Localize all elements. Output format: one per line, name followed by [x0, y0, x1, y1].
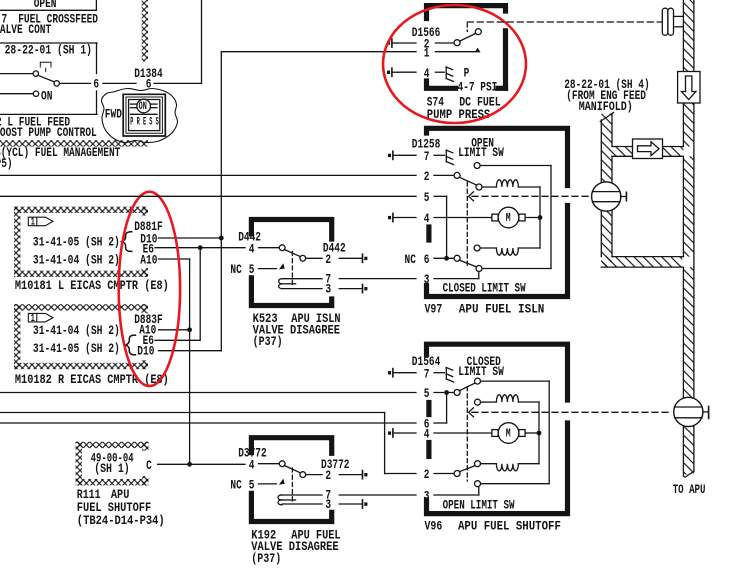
- pin 3 connector stub: [363, 285, 368, 293]
- svg-text:6: 6: [424, 254, 430, 268]
- wire pin 4 to motor: [434, 217, 491, 219]
- dashed link arm to coil: [291, 468, 293, 504]
- valve motor M: [492, 423, 525, 444]
- V97 isolation valve symbol on branch pipe: [592, 182, 621, 211]
- closed limit switch common circle: [454, 255, 460, 261]
- wire pin 6 to connector D1384: [103, 82, 136, 84]
- closed limit switch arm: [459, 260, 477, 267]
- wire left edge to pin 2: [0, 174, 416, 176]
- valve motor M: [492, 207, 525, 228]
- svg-text:OPEN LIMIT SW: OPEN LIMIT SW: [443, 499, 515, 513]
- svg-text:31-41-05 (SH 2): 31-41-05 (SH 2): [33, 235, 120, 250]
- momentary bracket: [40, 62, 51, 67]
- contact arrowhead pin 1: [475, 48, 481, 53]
- svg-text:A10: A10: [140, 254, 157, 268]
- open limit switch NC contact to rail: [474, 163, 480, 169]
- pin 7: [282, 278, 322, 280]
- pipe end cut to APU: [683, 472, 694, 478]
- svg-text:ON: ON: [139, 99, 147, 112]
- svg-text:2: 2: [424, 171, 430, 185]
- svg-text:3: 3: [325, 499, 331, 513]
- wire left edge to V96 pin 5: [0, 392, 416, 394]
- svg-text:M: M: [506, 212, 511, 226]
- svg-text:6: 6: [146, 79, 152, 93]
- wire pin C to K192 pin 4: [158, 463, 245, 465]
- ON indicator circle: [137, 99, 151, 113]
- svg-text:4: 4: [424, 428, 430, 442]
- pin 4 connector stub: [388, 213, 399, 221]
- svg-text:APU FUEL ISLN: APU FUEL ISLN: [459, 302, 545, 317]
- wire A10 down to R111 node: [159, 258, 190, 260]
- pin 2: [398, 42, 416, 44]
- pin 3: [282, 503, 322, 505]
- svg-text:S(YCL) FUEL MANAGEMENT: S(YCL) FUEL MANAGEMENT: [0, 147, 120, 161]
- svg-text:TO APU: TO APU: [673, 484, 706, 498]
- svg-text:5: 5: [249, 264, 255, 278]
- hatched separator band: [0, 140, 148, 146]
- flag note 1: [28, 217, 53, 226]
- svg-text:M: M: [506, 427, 511, 441]
- dashed mechanical link between limit switches: [466, 182, 468, 266]
- svg-text:1: 1: [31, 215, 35, 228]
- flow direction box right arrow: [633, 139, 663, 159]
- NC contact arrow: [279, 479, 285, 485]
- svg-text:2: 2: [325, 254, 331, 268]
- open limit switch arm: [459, 466, 475, 472]
- mechanical link chevron: [469, 408, 474, 417]
- pin 3: [282, 288, 322, 290]
- switch contact circle pin 2: [454, 40, 460, 46]
- svg-text:7: 7: [424, 151, 430, 165]
- svg-text:1: 1: [31, 311, 35, 324]
- bus wire A10 / A10 / R111 vertical: [189, 259, 191, 464]
- lower connector pipe to main line: [601, 257, 682, 268]
- svg-text:3: 3: [325, 283, 331, 297]
- svg-text:P5): P5): [0, 158, 13, 172]
- svg-text:APU FUEL SHUTOFF: APU FUEL SHUTOFF: [458, 518, 561, 533]
- wire pin 3 from K523 pin 7: [339, 278, 416, 280]
- svg-text:VALVE CONT: VALVE CONT: [0, 24, 51, 38]
- relay switch common circle: [279, 461, 285, 467]
- V96 APU fuel shutoff valve box outline: [427, 344, 568, 400]
- junction dot D10 bus: [219, 236, 224, 241]
- bus wire E6 / E6 vertical: [199, 248, 201, 341]
- branch pipe from eng feed manifold: [601, 114, 612, 183]
- limit switch actuator pin 7: [446, 368, 453, 383]
- svg-text:5: 5: [424, 388, 430, 402]
- R111 APU fuel shutoff resistor box (hatched): [76, 442, 149, 448]
- motor to bus junction: [526, 217, 541, 219]
- pressure switch actuator: [446, 67, 453, 82]
- K192 APU fuel valve disagree relay box outline: [251, 438, 331, 454]
- pin 4: [399, 432, 416, 434]
- flag note 1: [28, 313, 53, 322]
- svg-text:1: 1: [424, 47, 430, 61]
- svg-text:BOOST PUMP CONTROL: BOOST PUMP CONTROL: [0, 127, 97, 141]
- dashed mechanical link between limit switches: [466, 387, 468, 481]
- wire switch to pin 6: [59, 82, 90, 84]
- svg-text:3: 3: [424, 274, 430, 288]
- closed limit switch arm: [459, 383, 475, 391]
- svg-text:28-22-01 (SH 1): 28-22-01 (SH 1): [5, 43, 92, 58]
- relay coil: [279, 279, 283, 284]
- red ellipse highlight around EICAS pins: [119, 192, 180, 386]
- svg-text:5: 5: [249, 479, 255, 493]
- wire E6 to K523 pin 4: [155, 247, 245, 249]
- M10181 L EICAS computer box (hatched): [14, 207, 148, 213]
- svg-text:V97: V97: [425, 302, 443, 317]
- junction dot pin5/pin6: [444, 256, 449, 261]
- svg-text:4: 4: [424, 213, 430, 227]
- open valve coil contact: [475, 399, 481, 405]
- boost pump control box 28-22-01 (SH 1): [0, 42, 97, 44]
- M10182 R EICAS computer box (hatched): [14, 304, 148, 310]
- pin 4: [398, 71, 416, 73]
- open limit switch arm: [459, 177, 477, 185]
- open limit switch common circle: [454, 471, 460, 477]
- mechanical link chevron: [469, 192, 474, 201]
- wire to switch common: [0, 73, 33, 75]
- wire E6 to bus corner: [155, 339, 200, 341]
- rail bottom to closed switch: [482, 268, 551, 270]
- junction dot pin5/pin6: [444, 390, 449, 395]
- open limit switch contact circle: [475, 481, 481, 487]
- shield/cable chain to D1384 (hatched column): [142, 0, 148, 62]
- rail from closed switch: [481, 380, 550, 382]
- svg-text:6: 6: [93, 79, 99, 93]
- close valve coil: [481, 463, 497, 465]
- dashed mechanical line S74 to fuel line coupling: [467, 21, 661, 23]
- brace for E6/D10 pins: [126, 335, 136, 355]
- svg-text:5: 5: [424, 192, 430, 206]
- open valve coil: [482, 186, 496, 188]
- open valve coil: [496, 395, 518, 402]
- wire left edge to V96 pin 2 (via corner): [0, 412, 385, 414]
- svg-text:D10: D10: [137, 345, 154, 359]
- svg-text:31-41-04 (SH 2): 31-41-04 (SH 2): [33, 253, 120, 268]
- switch arm: [460, 33, 476, 41]
- svg-text:LIMIT SW: LIMIT SW: [458, 147, 504, 161]
- svg-text:4: 4: [249, 459, 255, 473]
- svg-text:OPEN: OPEN: [34, 0, 57, 12]
- svg-text:NC: NC: [230, 264, 242, 278]
- svg-text:3: 3: [424, 490, 430, 504]
- contact ON: [0, 93, 33, 95]
- svg-text:C: C: [146, 460, 152, 474]
- relay switch arm: [284, 466, 300, 473]
- svg-text:(P37): (P37): [251, 552, 281, 567]
- svg-text:(P37): (P37): [253, 335, 283, 350]
- pin 1 wire from EICAS bus: [222, 51, 416, 53]
- junction dot with A10 bus: [187, 462, 192, 467]
- check valve box with down arrow: [678, 72, 700, 104]
- pin 3 connector stub: [363, 500, 368, 508]
- main fuel line pipe (hatched): [683, 0, 694, 72]
- fuel crossfeed valve control box (partial): [0, 9, 96, 11]
- pin 7: [282, 494, 322, 496]
- pin 2: [306, 257, 322, 259]
- V97 APU fuel isolation valve box outline: [427, 128, 568, 185]
- wire D10 to bus junction: [159, 237, 222, 239]
- red ellipse highlight around S74 switch: [383, 5, 526, 123]
- pin 4 connector stub: [387, 68, 398, 76]
- svg-text:CLOSED LIMIT SW: CLOSED LIMIT SW: [443, 282, 526, 296]
- svg-text:NC: NC: [405, 254, 417, 268]
- dashed link arm to coil: [291, 252, 293, 287]
- wire left edge to pin 5: [0, 195, 416, 197]
- NC contact arrow: [279, 263, 285, 269]
- pin 6 to pin 5 link: [446, 393, 448, 424]
- closed limit switch contact to coil: [474, 245, 480, 251]
- pin 2: [306, 474, 322, 476]
- wire D10 to bus corner: [159, 350, 222, 352]
- switch (boost pump control): [33, 71, 38, 76]
- pin 2 connector stub: [363, 254, 368, 262]
- svg-text:P: P: [464, 67, 470, 81]
- branch pipe lower part: [611, 156, 613, 183]
- svg-text:2: 2: [424, 469, 430, 483]
- pin 7 connector stub: [388, 369, 399, 377]
- rail right vertical: [550, 166, 552, 269]
- open limit switch common circle: [454, 172, 460, 178]
- upper horizontal pipe to main line: [612, 147, 683, 157]
- svg-text:P R E S S: P R E S S: [130, 116, 158, 129]
- svg-text:4: 4: [249, 243, 255, 257]
- pin 4 connector stub: [388, 429, 399, 437]
- junction dot E6 bus: [198, 245, 203, 250]
- svg-text:LIMIT SW: LIMIT SW: [458, 366, 504, 380]
- coil to motor bus: [538, 402, 540, 464]
- branch pipe angled cap: [600, 113, 613, 122]
- closed limit switch common circle: [454, 390, 460, 396]
- K523 APU isolation valve disagree relay box outline: [251, 220, 331, 240]
- pin 2: [385, 473, 416, 475]
- pin 2 connector stub: [363, 471, 368, 479]
- svg-text:31-41-05 (SH 2): 31-41-05 (SH 2): [33, 342, 120, 357]
- pin 7: [399, 372, 416, 374]
- wire D1384 pin 6 to top edge: [154, 82, 202, 84]
- relay coil: [278, 495, 282, 500]
- junction dot A10 bus: [187, 327, 192, 332]
- wire left edge to V96 pin 6: [0, 422, 416, 424]
- dashed line to isolation valve: [472, 195, 589, 197]
- coil to motor bus: [539, 187, 541, 248]
- pin 4: [399, 217, 416, 219]
- limit switch actuator pin 7: [446, 150, 453, 165]
- svg-text:ON: ON: [41, 90, 53, 104]
- dashed line to shutoff valve: [472, 411, 671, 413]
- pin 7 connector stub: [388, 151, 399, 159]
- legend bars: [131, 103, 138, 105]
- svg-text:31-41-04 (SH 2): 31-41-04 (SH 2): [33, 324, 120, 339]
- V96 shutoff valve symbol on main pipe: [674, 397, 703, 426]
- pin 5 to pin 6 link: [446, 196, 448, 258]
- svg-text:(TB24-D14-P34): (TB24-D14-P34): [77, 513, 165, 528]
- svg-text:4-7 PSI: 4-7 PSI: [458, 81, 498, 95]
- wire A10 to bus: [159, 329, 190, 331]
- wire pin 3 from K192 pin 7: [339, 494, 416, 496]
- svg-text:4: 4: [424, 68, 430, 82]
- pin 2 connector stub: [387, 39, 398, 47]
- close valve coil: [496, 248, 518, 255]
- svg-text:7: 7: [424, 368, 430, 382]
- S74 DC fuel pump press switch box outline: [427, 6, 506, 19]
- svg-text:FWD: FWD: [105, 108, 122, 122]
- brace for D10/E6 pins: [122, 232, 132, 252]
- relay switch common circle: [279, 245, 285, 251]
- wire pin 4 to motor: [434, 432, 491, 434]
- svg-text:M10181 L EICAS CMPTR (E8): M10181 L EICAS CMPTR (E8): [15, 278, 169, 294]
- pin 7: [399, 154, 416, 156]
- svg-text:MANIFOLD): MANIFOLD): [579, 100, 633, 115]
- blob outline around press switch: [101, 88, 177, 142]
- svg-text:NC: NC: [230, 479, 242, 493]
- press switch outer squares: [123, 94, 165, 136]
- svg-text:2: 2: [325, 470, 331, 484]
- bus wire D1566-1 / D10 / D10 vertical: [220, 52, 222, 351]
- fuel coupling at top: [662, 8, 668, 35]
- svg-text:(SH 1): (SH 1): [94, 462, 130, 477]
- svg-text:V96: V96: [425, 519, 443, 534]
- relay switch arm: [284, 250, 300, 257]
- motor to bus junction: [526, 432, 540, 434]
